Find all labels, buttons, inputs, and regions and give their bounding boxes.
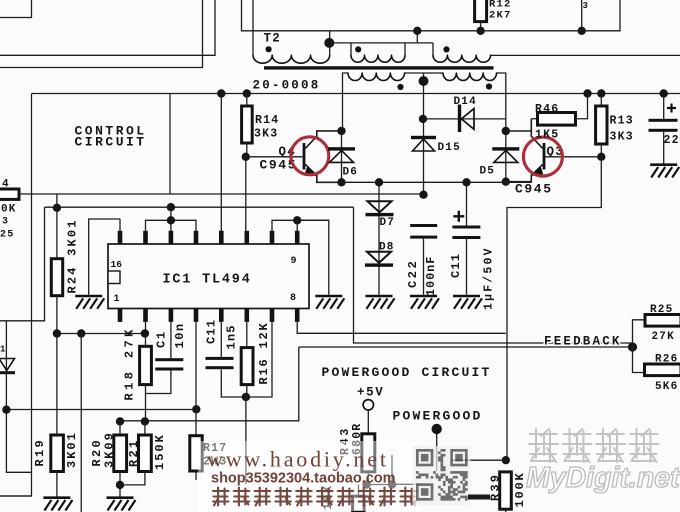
wire pin12 feed [220, 94, 222, 232]
svg-text:1: 1 [0, 345, 7, 355]
wire C2 bottom lead [663, 132, 665, 164]
wire C11cap top lead [466, 182, 468, 225]
svg-text:16: 16 [111, 259, 123, 270]
svg-text:+5V: +5V [357, 386, 384, 400]
wire primary link [329, 42, 433, 44]
wire T2 winding left lead [252, 0, 254, 55]
svg-text:3K01: 3K01 [65, 431, 79, 468]
IC1 pin1 notch [108, 271, 120, 284]
resistor R13 [596, 106, 607, 144]
wire pg right stub [392, 483, 420, 485]
svg-text:D6: D6 [343, 167, 359, 179]
svg-text:FEEDBACK: FEEDBACK [544, 335, 622, 349]
svg-text:0K: 0K [1, 204, 17, 216]
wire secondary center link [405, 72, 444, 74]
transformer secondary winding 3 [348, 73, 405, 81]
wire C11 bottom [221, 369, 246, 397]
node R39 top [502, 456, 510, 464]
svg-text:3: 3 [2, 217, 9, 228]
wire C2 top lead [663, 94, 665, 119]
wire feedback horizontal [299, 346, 633, 348]
svg-text:3K3: 3K3 [254, 128, 278, 141]
wire pin8 route [297, 322, 506, 333]
svg-text:C22: C22 [406, 259, 420, 288]
node D5 bottom [502, 178, 510, 186]
svg-text:D5: D5 [480, 166, 496, 178]
wire R19 top lead [56, 334, 58, 436]
wire Q3base net route [507, 157, 601, 460]
resistor R25 [645, 315, 680, 327]
wire top bus [242, 0, 621, 31]
ground C22 [410, 296, 439, 309]
wire top-left stub box [0, 0, 32, 18]
wire R43 bottom [367, 472, 369, 485]
svg-text:POWERGOOD CIRCUIT: POWERGOOD CIRCUIT [322, 365, 492, 380]
wire pin9 drop [296, 220, 298, 231]
phase dot winding2 [443, 46, 449, 52]
red circle around Q3 [523, 137, 562, 176]
node W4-pin14 [167, 216, 175, 224]
wire R39 bottom [505, 509, 507, 512]
wire Q4 base [246, 156, 303, 158]
wire pin2 to R18 [145, 322, 147, 346]
QR code watermark [413, 446, 471, 505]
capacitor C11 [206, 357, 234, 369]
ground left of IC [75, 296, 104, 309]
svg-text:4: 4 [2, 179, 10, 191]
wire feedback left drop [120, 347, 299, 421]
wire pin3 to C1 [170, 322, 172, 358]
wire R16 bottom [246, 385, 248, 397]
resistor R24 [51, 259, 62, 296]
node top bus tap [413, 27, 421, 35]
node D6 top [337, 127, 345, 135]
svg-text:22: 22 [664, 134, 680, 147]
resistor R43 [362, 434, 375, 472]
wire secondary left hook [343, 73, 349, 131]
svg-text:1K5: 1K5 [535, 129, 559, 142]
svg-text:www.haodiy.net: www.haodiy.net [207, 447, 389, 472]
IC U1 IC1 TL494 body [108, 244, 309, 309]
resistor R12 [475, 0, 487, 22]
wire R14 bottom lead [246, 143, 248, 157]
diode D8 [365, 252, 393, 267]
node pin2-R18 [141, 329, 149, 337]
svg-text:R24 3K01: R24 3K01 [66, 218, 80, 293]
red circle around Q4 [291, 137, 329, 175]
svg-text:3K3: 3K3 [610, 131, 634, 144]
wire Q3 base [545, 156, 601, 158]
node pg mid [388, 480, 396, 488]
resistor R44 left edge [0, 189, 19, 199]
resistor R17 [190, 436, 202, 471]
svg-text:100nF: 100nF [425, 255, 438, 296]
wire D6 branch [341, 131, 343, 182]
transformer primary winding 1 [351, 55, 405, 62]
wire R46 right lead [576, 94, 588, 119]
ground C2 [650, 165, 679, 178]
node W3-R24 [53, 204, 61, 212]
node R16-C11-pin7 [242, 393, 250, 401]
wire main horizontal W2 [0, 193, 424, 195]
wire R46 left lead [531, 118, 537, 120]
ground D8 [366, 296, 395, 309]
svg-text:R16 12K: R16 12K [257, 321, 271, 384]
svg-text:9: 9 [291, 256, 298, 267]
wire pg bottom link [367, 484, 393, 486]
svg-text:1µF/50V: 1µF/50V [482, 246, 495, 310]
node D5 top [502, 127, 510, 135]
wire bottom-left exit [0, 495, 32, 497]
wire secondary right hook [497, 73, 506, 131]
resistor R40 bottom edge [353, 496, 365, 512]
wire T2 winding right lead [329, 31, 331, 55]
wire +V rail [32, 93, 680, 95]
svg-text:2K7: 2K7 [489, 10, 512, 22]
wire C11cap bottom lead [466, 239, 468, 295]
svg-text:IC1 TL494: IC1 TL494 [163, 273, 252, 288]
transformer primary winding 2 [433, 55, 491, 62]
diode D5 [492, 147, 519, 162]
wire R21 [144, 421, 146, 435]
capacitor C22 [410, 224, 437, 239]
wire R24 bottom lead [56, 296, 58, 334]
wire R21 bottom [120, 472, 145, 485]
wire R20 bottom [119, 472, 121, 497]
wire gnd-left feed [89, 219, 120, 295]
wire R17 bottom lead [195, 471, 197, 480]
wire D7-D8 branch [378, 182, 380, 294]
wire pin4 to R17 [195, 322, 197, 436]
transistor Q3 C945 [531, 143, 545, 176]
resistor R21 [139, 435, 152, 472]
svg-text:10n: 10n [173, 322, 187, 348]
watermark digit house CJK outline [529, 429, 659, 462]
svg-text:R26: R26 [655, 354, 678, 366]
plus sign C2 [667, 104, 676, 113]
node R20-R21 bottom [116, 481, 124, 489]
node D6 bottom [337, 178, 345, 186]
wire center-tap drop [416, 31, 418, 43]
node W1-C11cap [462, 178, 470, 186]
svg-text:POWERGOOD: POWERGOOD [393, 409, 483, 424]
wire pin5 to C11 [220, 322, 222, 357]
watermark glow patch [198, 441, 422, 511]
node R43 bottom [362, 480, 370, 488]
svg-text:R14: R14 [255, 114, 279, 127]
svg-text:MyDigit.net: MyDigit.net [526, 462, 680, 494]
node R13-rail [597, 89, 605, 97]
wire left-edge branch [6, 321, 31, 473]
watermark CJK scan line [213, 488, 416, 506]
node W2 end / C22 top [419, 191, 427, 199]
svg-text:R19: R19 [33, 438, 47, 467]
svg-text:8: 8 [290, 293, 297, 304]
node aux bus [578, 27, 586, 35]
diode ZD left edge [0, 359, 15, 375]
ground right of IC [315, 296, 344, 309]
capacitor C2 [649, 119, 678, 132]
svg-text:C945: C945 [515, 182, 553, 197]
wire W3 to feedback [354, 207, 632, 343]
wire bottom bus 1 [6, 409, 196, 411]
node primary center junction [324, 38, 334, 48]
resistor R18 [140, 346, 152, 384]
wire under-dot drop [245, 397, 247, 484]
ground C11cap [453, 296, 482, 309]
wire Q3 collector link [506, 119, 543, 182]
diode D7 [366, 201, 394, 216]
control circuit box [0, 94, 170, 497]
node rail-R14 [243, 89, 251, 97]
node C2-rail [660, 89, 668, 97]
svg-text:R13: R13 [610, 115, 634, 128]
resistor R46 [538, 113, 576, 126]
diode D6 [328, 147, 355, 162]
phase dot T2 [266, 46, 272, 52]
svg-text:C1: C1 [154, 330, 168, 348]
resistor R19 [51, 435, 64, 472]
node R12 bottom [476, 27, 484, 35]
svg-text:D15: D15 [438, 142, 461, 154]
phase dot winding3 [397, 84, 403, 90]
diode D15 [411, 136, 436, 151]
wire thick stub right of QR [468, 495, 490, 500]
wire bus upper (to top edge) [0, 0, 215, 55]
IC1 top pins row [118, 231, 300, 244]
wire pg up stub [391, 455, 393, 485]
wire pin14 drop [170, 207, 172, 231]
capacitor C11 1uF [452, 226, 480, 240]
svg-text:R25: R25 [650, 304, 673, 316]
transformer secondary winding 4 [443, 73, 497, 81]
phase dot winding1 [355, 46, 361, 52]
node bus-drop [77, 329, 85, 337]
wire C1 bottom [146, 371, 171, 394]
wire W4 right segment [272, 220, 329, 231]
wire long drop to bottom [80, 334, 82, 512]
wire bus lower (to top edge) [0, 0, 203, 68]
node secondary center tap [419, 76, 429, 86]
node wire1 pin4 [192, 405, 200, 413]
svg-text:3: 3 [583, 1, 590, 11]
svg-text:150K: 150K [153, 433, 167, 470]
resistor R14 [242, 106, 253, 143]
phase dot winding4 [486, 83, 492, 89]
wire winding2 left lead [432, 43, 434, 55]
wire secondary center tap [423, 73, 425, 195]
svg-text:1: 1 [114, 294, 121, 305]
transformer core bar [264, 66, 494, 69]
node R20 top [116, 417, 124, 425]
transistor Q4 C945 [303, 131, 342, 182]
svg-text:R21: R21 [127, 438, 141, 467]
wire right rail from winding2 [491, 54, 680, 56]
svg-text:D7: D7 [380, 217, 396, 229]
transformer T2 primary winding [253, 55, 330, 63]
svg-text:1n5: 1n5 [224, 324, 238, 349]
node wire1 left [2, 406, 10, 414]
node R46-rail [583, 89, 591, 97]
svg-text:C11: C11 [204, 319, 218, 344]
wire W3 left drop [0, 207, 45, 321]
wire R13 bottom lead [600, 144, 602, 157]
wire W4 left segment [146, 220, 197, 231]
wire R24 top lead [56, 194, 58, 259]
node Q4 base junction [242, 153, 250, 161]
svg-text:C11: C11 [449, 253, 463, 278]
wire POWERGOOD drop [436, 434, 438, 471]
wire divider bracket [633, 320, 646, 373]
svg-text:25: 25 [0, 230, 14, 241]
wire gnd-right feed [297, 220, 329, 294]
svg-text:CIRCUIT: CIRCUIT [75, 135, 147, 150]
svg-text:5K6: 5K6 [655, 381, 678, 393]
capacitor C1 [155, 358, 183, 370]
wire pin16 drop [119, 219, 121, 231]
wire R13 top lead [600, 94, 602, 107]
IC1 bottom pins row [118, 308, 300, 322]
node R24-R19 [53, 329, 61, 337]
wire C22 bottom lead [423, 239, 425, 295]
node rail-pin12 [217, 89, 225, 97]
svg-text:T2: T2 [264, 32, 281, 46]
node D14 tap [419, 115, 427, 123]
wire D14 link [424, 118, 506, 120]
ground R20/R21 [107, 498, 136, 511]
wire pin7 drop [246, 322, 272, 397]
wire R14 top lead [246, 94, 248, 107]
wire R19 bottom lead [56, 472, 58, 497]
svg-text:R46: R46 [535, 103, 559, 116]
svg-text:27K: 27K [652, 331, 675, 343]
resistor R39 [500, 472, 512, 509]
wire R20 [119, 421, 121, 435]
resistor R26 [645, 364, 680, 376]
node +5V terminal circle [363, 400, 373, 410]
wire R40 top lead [358, 485, 360, 497]
wire QR hidden link [452, 459, 506, 461]
node W1-D7 [375, 178, 383, 186]
resistor R20 [114, 435, 127, 472]
node POWERGOOD terminal [432, 424, 442, 434]
wire winding1 right lead [404, 43, 406, 55]
node W4-pin9 [293, 216, 301, 224]
wire pin11 feed [245, 157, 247, 231]
wire R12 bottom lead [480, 22, 482, 31]
wire mid-left bus [57, 333, 145, 335]
node W3-pin14 [167, 203, 175, 211]
wire W3 bus [45, 206, 354, 208]
diode D14 [458, 105, 474, 133]
wire R18 bottom [145, 385, 147, 422]
svg-text:20-0008: 20-0008 [253, 79, 321, 93]
svg-text:3K09: 3K09 [103, 431, 117, 468]
plus sign C11cap [453, 211, 464, 222]
wire R12 top lead vertical [581, 0, 583, 31]
svg-text:D8: D8 [379, 242, 395, 254]
svg-text:shop35392304.taobao.com: shop35392304.taobao.com [211, 471, 396, 487]
node R21 top [141, 417, 149, 425]
ground R19 [43, 498, 72, 511]
node FEEDBACK [628, 342, 637, 351]
svg-text:D14: D14 [454, 96, 477, 108]
resistor R16 [241, 348, 253, 385]
svg-text:R39: R39 [489, 473, 503, 501]
wire pin6 to R16 [246, 322, 248, 348]
wire emitter bus [317, 181, 532, 183]
wire winding1 left lead [350, 43, 352, 55]
node R13-Q3base [597, 153, 605, 161]
wire D5 branch [505, 131, 507, 182]
svg-text:R18 27K: R18 27K [123, 326, 137, 400]
wire +5V to R43 [367, 410, 369, 434]
